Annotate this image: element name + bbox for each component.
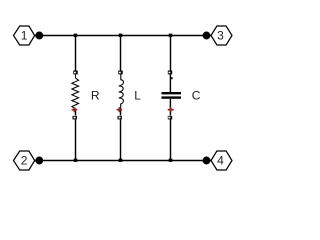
svg-text:R: R [91,89,100,103]
junction at R bottom [74,159,78,162]
red plus at C pin [168,107,174,112]
red plus at L pin [117,107,123,112]
port 3 hexagon [211,26,232,45]
port 4 hexagon [211,151,232,170]
node dot port 2 [35,157,43,165]
capacitor C [162,71,182,120]
wire inductor branch lower [120,119,122,160]
port 1 hexagon [14,26,35,45]
junction at L top [119,34,123,37]
junction at C bottom [169,159,173,162]
svg-text:L: L [134,89,141,103]
svg-text:3: 3 [217,28,224,42]
junction at C top [169,34,173,37]
wire top bus [35,35,212,37]
svg-text:1: 1 [21,28,28,42]
svg-text:C: C [192,89,201,103]
port 2 hexagon [14,151,35,170]
inductor L [118,71,124,120]
wire inductor branch upper [120,36,122,71]
wire resistor branch upper [75,36,77,71]
wire capacitor branch lower [170,119,172,160]
wire resistor branch lower [75,119,77,160]
node dot port 1 [35,32,43,40]
node dot port 3 [203,32,211,40]
svg-text:4: 4 [217,153,224,167]
red plus at R pin [72,107,78,112]
svg-text:2: 2 [21,153,28,167]
resistor R [72,71,79,120]
junction at L bottom [119,159,123,162]
wire bottom bus [35,160,212,162]
wire capacitor branch upper [170,36,172,71]
junction at R top [74,34,78,37]
node dot port 4 [203,157,211,165]
